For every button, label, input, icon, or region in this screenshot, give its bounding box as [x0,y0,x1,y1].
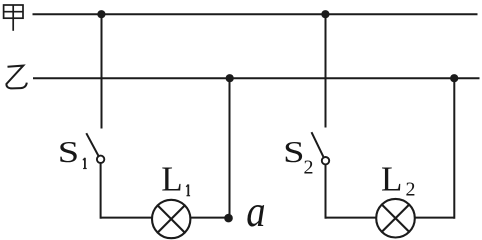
label yi (Chinese) [6,66,26,89]
svg-text:2: 2 [406,179,416,201]
svg-text:L: L [381,159,402,198]
wire bottom left of L2 [326,217,377,219]
switch S2 blade [312,132,324,157]
wire bus jia (top horizontal) [33,13,478,15]
wire L1 to node a [191,217,230,219]
junction dot on jia at S1 branch [97,10,105,18]
wire vertical from jia to S2 [325,14,327,127]
svg-text:S: S [283,135,304,170]
svg-text:a: a [246,187,265,236]
lamp L1 [152,200,190,238]
wire bus yi (second horizontal) [33,77,480,79]
junction dot node a [224,214,233,223]
switch S1 blade [86,133,98,156]
wire L2 right to corner [415,217,455,219]
wire S1 bottom vertical [100,163,102,219]
svg-text:2: 2 [304,157,314,179]
lamp L2 [376,199,415,238]
svg-text:L: L [161,159,182,198]
wire vertical branch yi to node a [229,78,231,218]
junction dot on jia at S2 branch [321,10,329,18]
junction dot on yi at a branch [226,74,234,82]
wire bottom left of L1 [101,217,152,219]
label jia (Chinese) [4,5,23,31]
wire S2 bottom vertical [325,165,327,219]
wire vertical from jia to S1 [101,14,103,128]
switch S2 terminal circle [322,157,329,164]
svg-text:S: S [58,134,79,169]
switch S1 terminal circle [97,156,104,163]
wire vertical yi to L2 right corner [453,78,455,219]
junction dot on yi at L2 branch [450,74,458,82]
